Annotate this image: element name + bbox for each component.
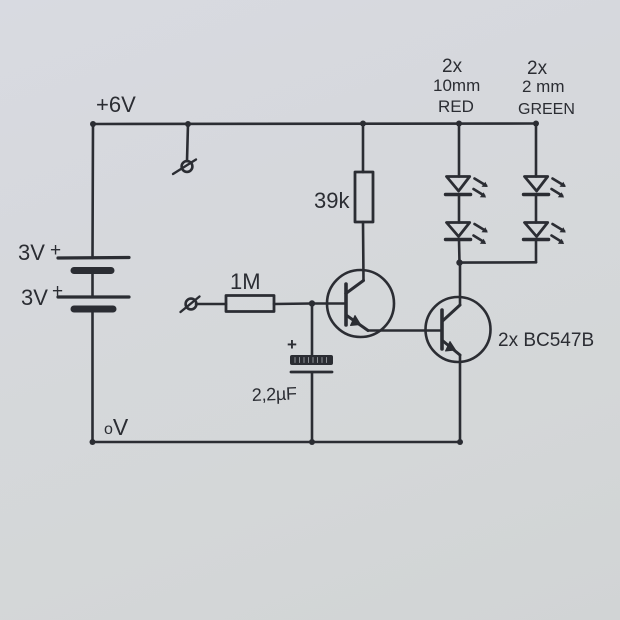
terminal J2 circle	[186, 299, 197, 310]
transistor Q2 base bar	[440, 310, 444, 349]
wire between cells	[91, 272, 94, 297]
wire red LED branch top	[458, 124, 461, 177]
svg-text:+: +	[287, 335, 297, 354]
LED D1 red triangle	[447, 177, 470, 192]
wire green LED branch top	[535, 124, 538, 177]
svg-text:2 mm: 2 mm	[522, 77, 565, 96]
LED D2 light arrow 1	[475, 224, 487, 231]
LED D1 light arrow 2	[474, 189, 485, 196]
svg-text:3V: 3V	[18, 240, 45, 265]
svg-text:RED: RED	[438, 97, 474, 116]
wire Q2 emitter down	[459, 355, 462, 442]
node bottom-left corner	[90, 439, 96, 445]
wire bottom rail 0V	[93, 441, 461, 444]
transistor Q1 base bar	[344, 284, 348, 325]
LED D4 green triangle	[525, 223, 548, 237]
LED D3 light arrow 2	[552, 189, 563, 196]
transistor Q1 emitter diagonal	[346, 315, 368, 331]
LED D2 light arrow 2 head	[480, 239, 486, 244]
terminal J1 slash	[173, 160, 196, 175]
wire R1 to base node	[274, 302, 312, 305]
terminal J1 circle	[182, 161, 193, 172]
svg-text:1M: 1M	[230, 269, 261, 294]
wire capacitor branch top	[311, 304, 314, 356]
capacitor C1 top plate hatch	[295, 358, 327, 363]
transistor Q1 circle	[327, 270, 394, 337]
svg-text:2x: 2x	[527, 58, 548, 79]
LED D1 light arrow 2 head	[480, 192, 486, 197]
transistor Q2 emitter arrow	[446, 342, 456, 352]
battery B1 cell 1 long plate	[58, 256, 129, 260]
LED D3 light arrow 1	[553, 179, 565, 186]
LED D1 light arrow 1 head	[482, 182, 488, 187]
svg-text:oV: oV	[104, 414, 129, 440]
transistor Q2 emitter diagonal	[443, 341, 460, 355]
LED D2 light arrow 1 head	[482, 227, 488, 232]
capacitor C1 bottom plate	[291, 371, 332, 374]
svg-text:2x BC547B: 2x BC547B	[498, 330, 594, 351]
LED D4 light arrow 1 head	[560, 227, 566, 232]
wire battery positive feed	[91, 124, 94, 258]
battery B1 cell 2 long plate	[58, 295, 129, 298]
wire 39k top	[362, 124, 365, 173]
terminal J2 slash	[181, 297, 200, 313]
LED D4 cathode bar	[524, 238, 549, 241]
svg-text:+: +	[52, 281, 63, 302]
wire node to Q1 base	[312, 302, 344, 305]
wire switch stub	[187, 124, 188, 161]
svg-text:39k: 39k	[314, 188, 350, 213]
node Q2 emitter bottom	[457, 439, 463, 445]
LED D4 light arrow 2	[552, 236, 563, 243]
transistor Q1 collector diagonal	[346, 281, 364, 294]
node top-left corner	[90, 121, 96, 127]
svg-text:2,2µF: 2,2µF	[251, 383, 297, 405]
LED D2 cathode bar	[446, 238, 471, 241]
wire LED junction to Q2 collector	[458, 263, 461, 264]
node capacitor branch bottom	[309, 439, 315, 445]
svg-text:3V: 3V	[21, 285, 48, 310]
svg-text:+6V: +6V	[96, 92, 136, 117]
node capacitor top junction	[309, 300, 315, 306]
node LED columns junction	[456, 259, 462, 265]
capacitor C1 top plate	[290, 355, 333, 365]
LED D2 light arrow 2	[474, 236, 485, 243]
battery B1 cell 2 short plate	[74, 306, 113, 313]
svg-text:GREEN: GREEN	[518, 101, 575, 118]
LED D4 light arrow 2 head	[558, 239, 564, 244]
wire capacitor to 0V rail	[311, 373, 314, 442]
LED D1 cathode bar	[446, 193, 471, 196]
wire J2 to R1	[196, 303, 226, 306]
LED D3 light arrow 2 head	[558, 192, 564, 197]
svg-text:2x: 2x	[442, 56, 463, 77]
wire between red LEDs	[458, 195, 461, 223]
wire red LEDs to junction	[458, 240, 461, 263]
wire Q1 emitter to Q2 base	[368, 329, 442, 332]
LED D1 light arrow 1	[475, 179, 487, 186]
node red LED branch	[456, 121, 462, 127]
transistor Q1 emitter arrow	[351, 316, 361, 326]
svg-text:10mm: 10mm	[433, 76, 480, 95]
wire LED columns connector	[460, 261, 537, 264]
resistor R2 39k body	[355, 172, 373, 222]
wire top rail +6V	[93, 122, 536, 125]
LED D2 red triangle	[447, 223, 470, 237]
LED D3 light arrow 1 head	[560, 182, 566, 187]
wire Q2 collector up	[459, 264, 462, 305]
resistor R1 1M body	[226, 296, 274, 312]
LED D3 green triangle	[525, 177, 548, 192]
transistor Q2 collector diagonal	[443, 305, 461, 321]
LED D3 cathode bar	[524, 193, 549, 196]
LED D4 light arrow 1	[553, 224, 565, 231]
wire green LEDs down	[535, 240, 538, 263]
transistor Q2 circle	[426, 297, 491, 362]
node switch branch	[185, 121, 191, 127]
wire 39k to Q1 collector	[362, 222, 365, 280]
node green LED branch	[533, 121, 539, 127]
wire battery negative to 0V rail	[91, 312, 94, 442]
battery B1 cell 1 short plate	[74, 267, 111, 274]
wire between green LEDs	[535, 195, 538, 223]
svg-text:+: +	[50, 240, 61, 261]
node 39k branch	[360, 121, 366, 127]
